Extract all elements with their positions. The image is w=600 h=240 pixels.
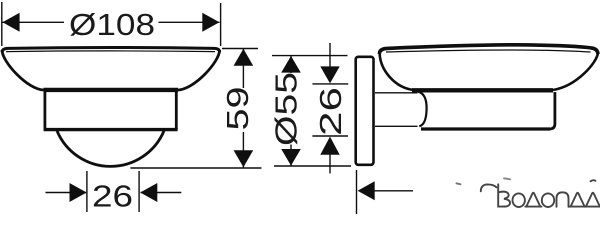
dimension line bottom right view: [374, 190, 413, 192]
arrow up O55: [281, 56, 301, 73]
watermark tall bar with B bumps: [498, 184, 506, 206]
extension line bottom of 59: [130, 167, 261, 169]
dimension line 59 top part: [242, 49, 244, 89]
arrow left O108: [3, 13, 20, 32]
arrow left-pointing bottom 26: [140, 183, 157, 202]
dimension line bottom 26 left: [46, 192, 87, 194]
right dish rim inner line: [386, 50, 591, 52]
stem right edge: [175, 89, 178, 130]
watermark tick above: [591, 180, 596, 181]
tick top 26 right view: [312, 83, 348, 85]
dimension line O55 bottom part: [290, 145, 292, 166]
collar top line: [375, 92, 418, 94]
watermark smudge dash 2: [504, 178, 510, 179]
dimension line bottom 26 right: [141, 192, 182, 194]
tick bottom 26 right view: [312, 135, 348, 137]
stem bottom edge: [44, 128, 178, 131]
stem left edge: [44, 89, 47, 130]
extension line left of O108: [1, 2, 3, 46]
dish rim top line: [2, 48, 219, 53]
svg-text:Ø55: Ø55: [269, 72, 304, 146]
dish bottom / arm top thick band: [412, 88, 553, 92]
arrow down 26 right view: [320, 66, 339, 83]
watermark o glyph 2: [542, 193, 554, 207]
svg-text:59: 59: [220, 87, 255, 131]
watermark triangle glyph 2: [570, 193, 586, 207]
right dish left bowl curve: [380, 52, 414, 90]
arm bottom edge: [421, 127, 550, 130]
extension line right of bottom 26: [138, 171, 140, 212]
extension line top of 59: [222, 48, 258, 50]
wall plate: [356, 57, 374, 165]
extension line bottom dim right view: [356, 170, 358, 214]
bowl right curve: [178, 50, 220, 90]
watermark triangle glyph 1: [525, 193, 541, 207]
watermark hook glyph: [481, 184, 497, 191]
dimension line O55 top part: [290, 56, 292, 73]
dimension line 26 upper part: [329, 43, 331, 67]
dimension line O108 left part: [3, 21, 65, 23]
right dish right bowl curve: [553, 53, 598, 91]
extension line left of bottom 26: [86, 171, 88, 212]
extension line right of O108: [220, 3, 222, 46]
watermark smudge dash: [457, 183, 461, 184]
watermark triangle glyph 3: [585, 193, 600, 207]
dish rim inner line: [6, 50, 215, 53]
svg-text:26: 26: [92, 178, 133, 213]
bowl left curve: [2, 50, 44, 90]
arrow down 59: [234, 150, 254, 167]
arrow up 26 right view: [320, 137, 339, 155]
arrow up 59: [234, 49, 254, 66]
watermark n-arch glyph: [557, 192, 569, 207]
right dish rim top line: [379, 45, 598, 54]
arrow down O55: [281, 149, 301, 166]
cone flare arc: [418, 92, 426, 127]
dimension line 59 bottom part: [242, 132, 244, 168]
watermark o glyph 1: [513, 193, 525, 207]
extension line bottom O55: [274, 165, 351, 167]
extension line top O55: [272, 55, 348, 57]
arm right end cap: [550, 92, 555, 129]
dimension line 26 lower part: [329, 154, 331, 173]
bowl bottom / stem top thick band: [44, 88, 179, 92]
svg-text:Ø108: Ø108: [69, 7, 155, 42]
svg-text:26: 26: [313, 87, 348, 136]
arrow left-pointing bottom dim: [358, 181, 375, 200]
arrow right-pointing bottom 26: [70, 183, 87, 202]
arrow right O108: [202, 13, 219, 32]
collar bottom line: [375, 125, 418, 127]
dimension line O108 right part: [159, 21, 220, 23]
dome arc: [57, 131, 164, 167]
